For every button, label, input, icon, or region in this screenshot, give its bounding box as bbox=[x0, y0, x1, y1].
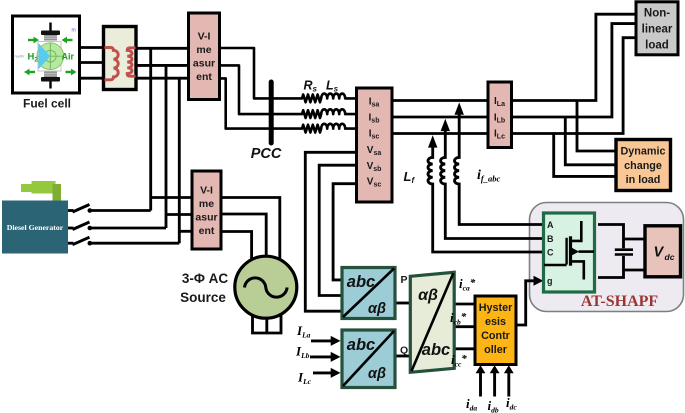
svg-text:AT-SHAPF: AT-SHAPF bbox=[581, 293, 659, 310]
wire: tap into V-I measurement 2 phase c bbox=[179, 230, 192, 233]
wire: filter leg 3 from SHAPF pin A with inductor and arrow to bus row 1 bbox=[454, 102, 543, 224]
svg-text:ent: ent bbox=[196, 71, 212, 83]
wire: V-I 1 output a to PCC bus line 1 with resistor Rs and inductor Ls bbox=[219, 48, 356, 102]
wire: ILc signal arrow into abc-ab block2 bbox=[313, 368, 341, 378]
wire: bus row 3 bbox=[392, 132, 488, 135]
svg-text:αβ: αβ bbox=[368, 301, 386, 317]
svg-text:Hyster: Hyster bbox=[479, 302, 513, 314]
wire: V-I 2 output a to AC source bbox=[220, 198, 280, 260]
wire: ILb to non-linear load phase 2 bbox=[511, 24, 636, 117]
svg-text:FuelFr: FuelFr bbox=[14, 55, 26, 59]
transformer T1 bbox=[104, 27, 137, 90]
3-phase AC source circle bbox=[235, 256, 297, 318]
svg-text:Diesel Generator: Diesel Generator bbox=[7, 223, 64, 232]
measurement signals block Isa-Vsc bbox=[357, 88, 393, 202]
wire: branch vertical phase a to diesel bus bbox=[149, 48, 152, 210]
V-I measurement block 1 bbox=[189, 13, 220, 100]
svg-text:load: load bbox=[645, 40, 669, 52]
svg-text:abc: abc bbox=[347, 273, 375, 291]
wire: capacitor to Vdc top stub bbox=[624, 238, 646, 241]
svg-text:g: g bbox=[547, 276, 553, 286]
alphabeta to abc block bbox=[410, 272, 454, 372]
svg-text:A: A bbox=[547, 220, 554, 230]
svg-text:asur: asur bbox=[193, 58, 215, 70]
wire: fuel cell to transformer phase a bbox=[79, 46, 103, 49]
wire: hysteresis output to gate g with arrow bbox=[515, 276, 543, 325]
wire: bus row 1 measurement to ILa block bbox=[392, 99, 488, 102]
AC source legs bbox=[253, 305, 282, 333]
svg-text:αβ: αβ bbox=[418, 287, 438, 304]
wire: Vsb tap to abc-ab block1 input 2 bbox=[319, 165, 357, 295]
svg-text:in load: in load bbox=[626, 174, 661, 186]
wire: filter leg 2 from SHAPF pin B with inductor and arrow to bus row 2 bbox=[441, 119, 544, 239]
wire: branch to dynamic load input 2 bbox=[565, 117, 616, 165]
wire: ida arrow into hysteresis controller bbox=[476, 365, 486, 396]
fuel cell block bbox=[13, 16, 80, 93]
wire: V-I 2 output c to AC source bbox=[220, 232, 252, 262]
wire: V-I 1 output b to PCC bus line 2 with resistor and inductor bbox=[219, 65, 356, 118]
svg-text:abc: abc bbox=[347, 336, 375, 354]
svg-text:C: C bbox=[547, 248, 554, 258]
hysteresis controller block bbox=[475, 296, 516, 365]
wire: inverter output to DC link bottom bbox=[598, 256, 624, 278]
Vdc block bbox=[645, 226, 681, 277]
svg-text:dc: dc bbox=[665, 252, 675, 262]
svg-text:Source: Source bbox=[180, 290, 226, 305]
svg-text:Air: Air bbox=[62, 52, 75, 62]
wire: fuel cell to transformer phase b bbox=[79, 61, 103, 64]
wire: Q signal block2 to ab-abc block bbox=[395, 355, 411, 358]
wire: idb arrow into hysteresis controller bbox=[490, 365, 500, 396]
svg-text:PCC: PCC bbox=[251, 146, 282, 162]
svg-text:Q: Q bbox=[400, 345, 408, 357]
switch S3 on diesel line c bbox=[68, 237, 92, 245]
wire: diesel generator line b bbox=[90, 227, 167, 230]
wire: P signal block1 to ab-abc block bbox=[395, 302, 411, 305]
wire: tap into V-I measurement 2 phase a bbox=[151, 196, 192, 199]
svg-text:abc: abc bbox=[422, 341, 450, 359]
wire: ILb signal arrow into abc-ab block2 bbox=[310, 352, 341, 362]
wire: branch to dynamic load input 3 bbox=[554, 134, 616, 177]
wire: Vsc tap to abc-ab block1 input 1 bbox=[333, 184, 357, 280]
capacitor C1 DC link bbox=[615, 250, 633, 255]
wire: bus row 2 bbox=[392, 116, 488, 119]
wire: V-I 2 output b to AC source bbox=[220, 214, 266, 256]
diesel generator bbox=[2, 181, 68, 254]
svg-text:ent: ent bbox=[199, 225, 215, 237]
transistor Q1 IGBT inside inverter bbox=[544, 221, 594, 280]
wire: icb* reference to hysteresis controller bbox=[454, 325, 475, 328]
wire: capacitor to Vdc bottom stub bbox=[624, 269, 646, 272]
svg-text:m: m bbox=[72, 28, 76, 34]
AT-SHAPF outer box bbox=[530, 203, 684, 312]
load current block ILa-ILc bbox=[488, 82, 512, 148]
wire: diesel generator line a bbox=[90, 209, 151, 212]
inverter block with pins A B C g bbox=[544, 213, 595, 292]
svg-text:linear: linear bbox=[642, 24, 673, 36]
wire: ILa signal arrow into abc-ab block2 bbox=[311, 336, 341, 346]
svg-text:Non-: Non- bbox=[644, 8, 670, 20]
wire: branch to dynamic load input 1 bbox=[577, 101, 616, 152]
svg-text:B: B bbox=[547, 234, 554, 244]
svg-text:V-I: V-I bbox=[198, 31, 211, 43]
wire: diesel generator line c bbox=[90, 242, 180, 245]
wire: V-I 1 output c to PCC bus line 3 with resistor and inductor bbox=[219, 78, 356, 132]
switch S2 on diesel line b bbox=[68, 222, 92, 230]
wire: transformer to V-I measurement 1 phase c bbox=[137, 77, 189, 80]
svg-text:Contr: Contr bbox=[481, 330, 511, 342]
svg-text:Dynamic: Dynamic bbox=[620, 146, 665, 158]
svg-text:me: me bbox=[199, 198, 214, 210]
dynamic change in load block bbox=[616, 140, 671, 191]
abc to alphabeta block 2 bbox=[342, 330, 395, 388]
svg-text:me: me bbox=[196, 44, 211, 56]
svg-text:V: V bbox=[654, 245, 665, 261]
svg-text:change: change bbox=[624, 160, 662, 172]
non-linear load block bbox=[636, 2, 678, 55]
switch S1 on diesel line a bbox=[68, 205, 92, 213]
wire: ILa block to non-linear load phase 1 bbox=[511, 14, 636, 100]
svg-text:oller: oller bbox=[484, 344, 508, 356]
svg-text:esis: esis bbox=[485, 316, 506, 328]
wire: fuel cell to transformer phase c bbox=[79, 77, 103, 80]
wire: tap into V-I measurement 2 phase b bbox=[166, 213, 192, 216]
svg-text:P: P bbox=[401, 274, 408, 286]
wire: branch vertical phase b to diesel bus bbox=[165, 65, 168, 228]
abc to alphabeta block 1 bbox=[342, 268, 395, 319]
wire: transformer to V-I measurement 1 phase b bbox=[137, 64, 189, 67]
wire: ica* reference to hysteresis controller bbox=[454, 303, 476, 306]
wire: filter leg 1 from SHAPF pin C with inductor Lf and arrow to bus row 3 bbox=[428, 135, 544, 252]
wire: branch vertical phase c to diesel bus bbox=[178, 78, 181, 243]
svg-text:3-Φ AC: 3-Φ AC bbox=[182, 271, 229, 286]
PCC bus bar bbox=[269, 82, 274, 143]
V-I measurement block 2 bbox=[192, 171, 221, 249]
wire: inverter output to DC link top bbox=[598, 225, 624, 249]
svg-text:asur: asur bbox=[195, 211, 217, 223]
wire: icc* reference to hysteresis controller bbox=[454, 347, 475, 350]
svg-text:αβ: αβ bbox=[368, 366, 386, 382]
wire: ILc to non-linear load phase 3 bbox=[511, 38, 636, 134]
svg-text:Fuel cell: Fuel cell bbox=[23, 97, 71, 111]
wire: Vsa tap to abc-ab block1 input 3 bbox=[305, 152, 357, 311]
svg-text:V-I: V-I bbox=[200, 184, 213, 196]
wire: transformer to V-I measurement 1 phase a bbox=[137, 47, 189, 50]
wire: idc arrow into hysteresis controller bbox=[504, 365, 514, 396]
